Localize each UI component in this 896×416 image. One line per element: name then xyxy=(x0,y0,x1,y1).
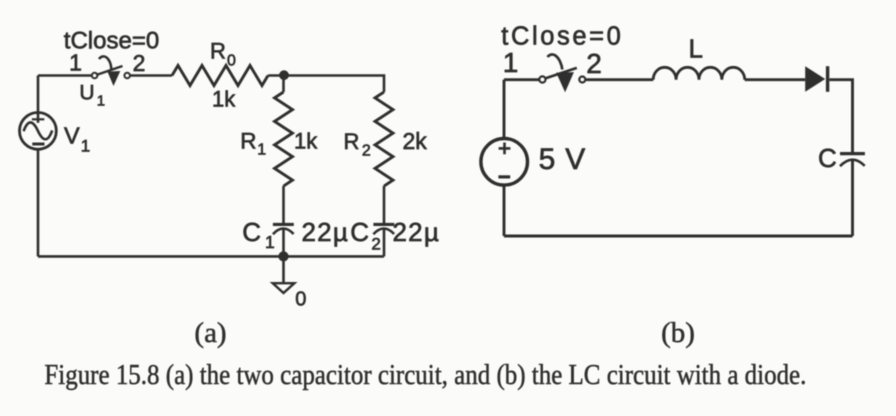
svg-text:2: 2 xyxy=(371,234,380,253)
svg-text:2: 2 xyxy=(362,143,371,160)
svg-text:1k: 1k xyxy=(212,87,236,112)
svg-text:1: 1 xyxy=(69,50,82,76)
svg-text:22µ: 22µ xyxy=(393,217,441,247)
svg-text:2: 2 xyxy=(586,48,602,79)
svg-text:1: 1 xyxy=(81,137,90,156)
svg-text:1k: 1k xyxy=(294,129,318,154)
svg-text:2k: 2k xyxy=(403,128,428,154)
svg-text:tClose=0: tClose=0 xyxy=(501,23,623,51)
svg-text:U: U xyxy=(79,82,94,105)
svg-text:1: 1 xyxy=(257,142,266,159)
svg-text:C: C xyxy=(350,217,369,247)
svg-text:(a): (a) xyxy=(194,317,226,349)
svg-text:1: 1 xyxy=(503,47,519,78)
svg-text:R: R xyxy=(344,129,360,154)
svg-text:(b): (b) xyxy=(661,317,695,349)
svg-text:1: 1 xyxy=(265,232,275,252)
svg-text:22µ: 22µ xyxy=(302,217,350,247)
svg-text:R: R xyxy=(240,129,256,154)
svg-text:L: L xyxy=(689,34,703,64)
svg-text:C: C xyxy=(242,217,261,247)
svg-text:1: 1 xyxy=(97,93,105,110)
svg-text:V: V xyxy=(64,123,80,149)
svg-text:R: R xyxy=(210,38,226,63)
svg-text:0: 0 xyxy=(227,53,236,70)
svg-text:Figure 15.8 (a) the two capaci: Figure 15.8 (a) the two capacitor circui… xyxy=(44,360,806,391)
svg-text:C: C xyxy=(818,143,837,173)
svg-text:5 V: 5 V xyxy=(539,143,586,176)
svg-text:2: 2 xyxy=(133,50,146,76)
svg-text:0: 0 xyxy=(295,289,306,311)
